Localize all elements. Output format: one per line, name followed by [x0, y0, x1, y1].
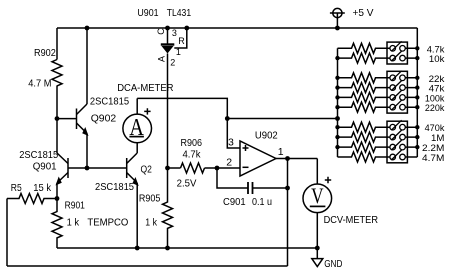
wire ladder left bus [337, 48, 339, 157]
node rail-TL431 cathode [165, 26, 170, 31]
resistor 470k row [338, 122, 418, 132]
svg-text:R905: R905 [139, 193, 161, 205]
svg-text:Q902: Q902 [91, 113, 117, 125]
wire ammeter top [136, 98, 138, 114]
wire pin2 branch down to C901 [217, 168, 248, 188]
svg-text:TL431: TL431 [167, 7, 191, 19]
shunt ref U901 TL431 [167, 28, 169, 44]
wire R906 to op-amp pin2 [205, 167, 241, 169]
svg-text:2SC1815: 2SC1815 [90, 96, 129, 108]
switch 47k [390, 85, 396, 91]
svg-text:+5 V: +5 V [353, 7, 374, 19]
resistor 4.7M row [338, 152, 418, 162]
resistor 10k row [338, 53, 418, 63]
svg-text:2: 2 [226, 156, 232, 168]
resistor R901 [52, 199, 62, 249]
resistor R5 [7, 194, 57, 204]
wire R902 bottom to Q901 collector [56, 86, 58, 154]
wire base line Q901-Q2 [68, 167, 127, 169]
resistor R902 [52, 60, 62, 86]
wire op-amp output [276, 158, 317, 160]
svg-text:R901: R901 [65, 199, 85, 211]
transistor Q2 [126, 158, 128, 178]
svg-text:C901: C901 [223, 196, 246, 208]
svg-text:U901: U901 [137, 7, 158, 19]
ammeter DCA-METER circle [123, 114, 152, 143]
node R5 R901 [55, 196, 60, 201]
wire TL431 anode down [167, 54, 169, 169]
svg-text:2SC1815: 2SC1815 [95, 181, 134, 193]
resistor 1M row [338, 132, 418, 142]
node rail-TL431 ref [184, 26, 189, 31]
svg-text:Q901: Q901 [33, 161, 57, 173]
resistor R906 [181, 163, 205, 173]
svg-text:2.5V: 2.5V [177, 177, 197, 189]
node right bus rows [415, 46, 419, 50]
svg-text:R5: R5 [11, 182, 22, 194]
ground symbol [316, 248, 318, 259]
svg-text:V: V [311, 183, 323, 208]
resistor 2.2M row [338, 142, 418, 152]
node sense tap [225, 116, 230, 121]
resistor 47k row [338, 83, 418, 93]
svg-text:1: 1 [278, 146, 284, 158]
node R902-Q902 base [55, 116, 60, 121]
svg-text:4.7M: 4.7M [422, 153, 444, 164]
node output [285, 156, 290, 161]
wire Q902 collector riser [86, 28, 88, 104]
wire tap to ladder bus [227, 118, 337, 120]
svg-text:3: 3 [228, 137, 234, 149]
switch 22k [390, 75, 396, 81]
Q902 emitter arrow [82, 127, 88, 136]
jumper block 1 [387, 42, 407, 64]
wire Q901 emitter down [56, 183, 58, 199]
svg-text:15 k: 15 k [33, 182, 51, 194]
voltmeter plus [325, 177, 331, 183]
transistor Q902 [76, 109, 78, 130]
svg-text:3: 3 [172, 28, 177, 38]
wire feedback down to bottom rail [287, 159, 289, 267]
wire Q902 base [57, 118, 77, 120]
wire Q2 collector riser [136, 143, 138, 153]
svg-text:C: C [156, 28, 166, 35]
power +5V terminal [333, 8, 342, 17]
svg-text:U902: U902 [255, 130, 278, 142]
svg-text:0.1 u: 0.1 u [252, 196, 272, 208]
switch 220k [390, 104, 396, 110]
wire ground rail A [57, 247, 317, 249]
transistor Q901 [67, 158, 69, 178]
ladder bus dots [335, 46, 419, 149]
Q901 emitter arrow [56, 177, 62, 186]
svg-text:R906: R906 [181, 137, 203, 149]
wire voltmeter bottom [316, 213, 318, 249]
svg-text:1 k: 1 k [67, 217, 80, 229]
node ladder bus tap [335, 116, 340, 121]
node left bus rows [335, 56, 339, 60]
ammeter plus [144, 108, 150, 114]
resistor 4.7k row [338, 43, 418, 53]
node pin2 [215, 166, 220, 171]
svg-text:2: 2 [170, 58, 175, 68]
svg-text:4.7k: 4.7k [183, 149, 202, 161]
node rail-Q902c [85, 26, 90, 31]
switch 4.7k [390, 46, 396, 52]
switch 1M [390, 134, 396, 140]
wire top +5V rail [57, 27, 417, 29]
svg-text:4.7 M: 4.7 M [28, 78, 51, 90]
meter plus signs [144, 108, 331, 183]
wire 2.5V node to R906 [168, 167, 181, 169]
capacitor C901 [247, 182, 249, 194]
wire right bus from rail down [416, 28, 418, 157]
svg-text:R: R [178, 36, 185, 46]
resistor 100k row [338, 92, 418, 102]
node rail +5V [335, 26, 340, 31]
node rail A Q2e [135, 246, 140, 251]
svg-text:220k: 220k [425, 103, 445, 114]
wire Q2 emitter dropper [136, 183, 138, 248]
resistor R905 [163, 168, 173, 248]
resistor ladder [338, 42, 418, 163]
Q2 emitter arrow [132, 177, 138, 186]
wire Q902 emitter dropper [86, 134, 88, 169]
switch contacts [390, 41, 405, 160]
TL431 cathode triangle [162, 46, 174, 54]
voltmeter DCV-METER circle [303, 184, 332, 213]
node base line [85, 166, 90, 171]
svg-text:1 k: 1 k [145, 217, 157, 229]
op-amp U902 [240, 141, 276, 176]
node feedback C901 [285, 186, 290, 191]
wire R5 left down to feedback rail [6, 199, 8, 267]
svg-text:A: A [157, 56, 167, 62]
switch 100k [390, 95, 396, 101]
wire C901 to feedback [253, 187, 288, 189]
resistor 220k row [338, 102, 418, 112]
node rail A R905 [165, 246, 170, 251]
svg-text:TEMPCO: TEMPCO [87, 217, 128, 229]
svg-text:R902: R902 [34, 47, 56, 59]
switch 10k [390, 55, 396, 61]
switch 2.2M [390, 144, 396, 150]
svg-text:DCA-METER: DCA-METER [117, 82, 174, 94]
svg-text:GND: GND [324, 258, 343, 270]
svg-text:DCV-METER: DCV-METER [324, 214, 379, 226]
switch 4.7M [390, 154, 396, 160]
svg-text:1: 1 [176, 47, 181, 57]
wire output to voltmeter [316, 159, 318, 185]
svg-text:2SC1815: 2SC1815 [19, 149, 58, 161]
node rail A GND [315, 246, 320, 251]
wire left branch from rail down to R902 [56, 28, 58, 60]
switch 470k [390, 124, 396, 130]
resistor 22k row [338, 73, 418, 83]
node 2.5V [165, 166, 170, 171]
jumper block 3 [387, 121, 407, 163]
svg-text:10k: 10k [429, 54, 445, 65]
wire feedback rail B [7, 265, 288, 267]
wire sense line to op-amp [137, 98, 240, 148]
svg-text:Q2: Q2 [141, 164, 153, 176]
jumper block 2 [387, 71, 407, 113]
